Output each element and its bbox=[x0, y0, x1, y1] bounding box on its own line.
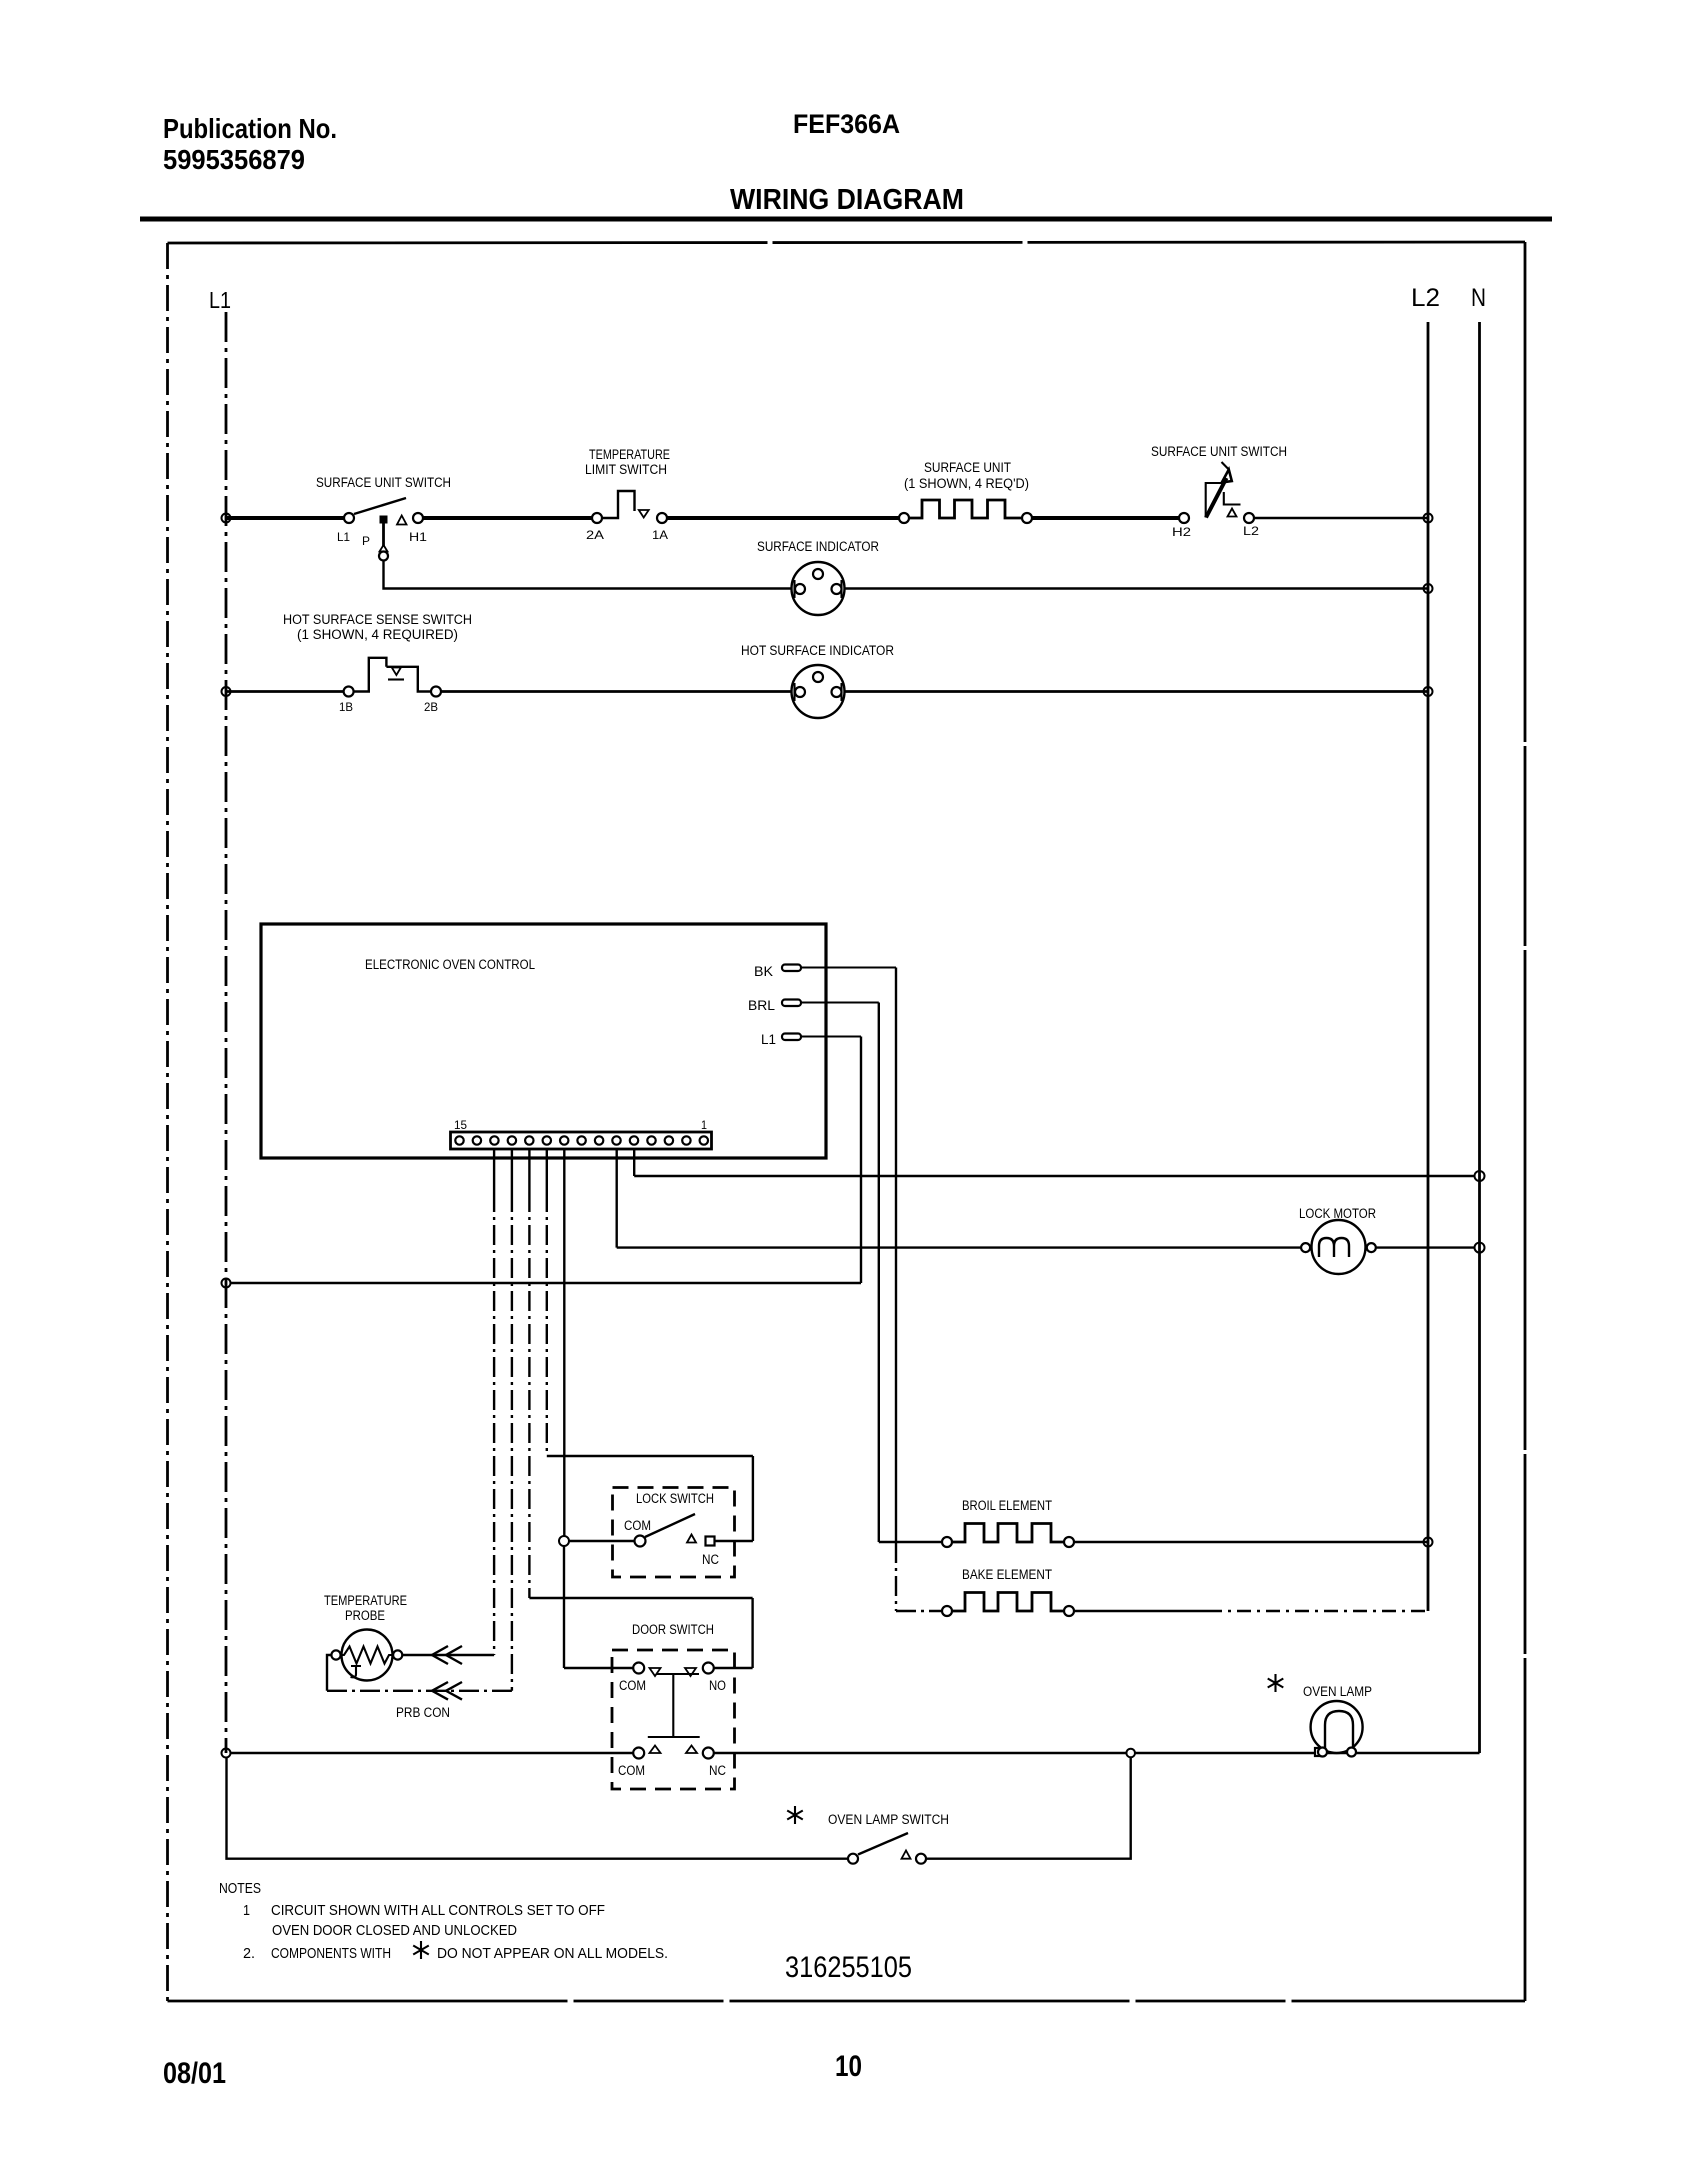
svg-text:(1 SHOWN, 4 REQUIRED): (1 SHOWN, 4 REQUIRED) bbox=[297, 627, 458, 642]
svg-text:(1 SHOWN, 4 REQ'D): (1 SHOWN, 4 REQ'D) bbox=[904, 476, 1029, 491]
svg-text:SURFACE UNIT SWITCH: SURFACE UNIT SWITCH bbox=[1151, 444, 1287, 459]
svg-text:SURFACE INDICATOR: SURFACE INDICATOR bbox=[757, 539, 879, 554]
svg-text:COM: COM bbox=[619, 1678, 646, 1693]
svg-text:P: P bbox=[362, 534, 370, 548]
svg-text:COM: COM bbox=[624, 1518, 651, 1533]
svg-text:NOTES: NOTES bbox=[219, 1880, 261, 1897]
svg-text:08/01: 08/01 bbox=[163, 2057, 226, 2090]
svg-text:NC: NC bbox=[709, 1763, 726, 1778]
svg-text:H1: H1 bbox=[409, 530, 427, 544]
svg-text:BAKE ELEMENT: BAKE ELEMENT bbox=[962, 1567, 1052, 1582]
svg-text:BK: BK bbox=[754, 964, 773, 979]
svg-text:2.: 2. bbox=[243, 1945, 255, 1962]
svg-text:5995356879: 5995356879 bbox=[163, 144, 305, 175]
svg-text:SURFACE UNIT: SURFACE UNIT bbox=[924, 460, 1011, 475]
svg-text:TEMPERATURE: TEMPERATURE bbox=[589, 447, 670, 462]
svg-text:OVEN LAMP: OVEN LAMP bbox=[1303, 1684, 1372, 1699]
svg-text:DOOR SWITCH: DOOR SWITCH bbox=[632, 1622, 714, 1637]
svg-text:2B: 2B bbox=[424, 700, 438, 714]
svg-text:DO NOT APPEAR ON ALL MODELS.: DO NOT APPEAR ON ALL MODELS. bbox=[437, 1945, 668, 1962]
svg-text:WIRING DIAGRAM: WIRING DIAGRAM bbox=[730, 184, 964, 216]
svg-text:10: 10 bbox=[835, 2050, 862, 2083]
svg-text:Publication No.: Publication No. bbox=[163, 113, 337, 144]
svg-text:N: N bbox=[1471, 284, 1486, 312]
svg-text:BRL: BRL bbox=[748, 998, 776, 1013]
svg-text:PROBE: PROBE bbox=[345, 1608, 385, 1623]
svg-text:LIMIT SWITCH: LIMIT SWITCH bbox=[585, 462, 667, 477]
svg-text:FEF366A: FEF366A bbox=[793, 109, 900, 139]
svg-text:LOCK SWITCH: LOCK SWITCH bbox=[636, 1491, 714, 1506]
svg-text:2A: 2A bbox=[586, 528, 604, 542]
svg-text:ELECTRONIC OVEN CONTROL: ELECTRONIC OVEN CONTROL bbox=[365, 957, 535, 972]
svg-text:L1: L1 bbox=[209, 287, 231, 313]
svg-text:SURFACE UNIT SWITCH: SURFACE UNIT SWITCH bbox=[316, 475, 451, 490]
svg-text:L2: L2 bbox=[1411, 284, 1440, 312]
svg-text:L2: L2 bbox=[1243, 524, 1259, 538]
svg-text:NO: NO bbox=[709, 1678, 726, 1693]
svg-text:HOT SURFACE INDICATOR: HOT SURFACE INDICATOR bbox=[741, 643, 894, 658]
svg-text:15: 15 bbox=[454, 1118, 467, 1132]
svg-text:1: 1 bbox=[701, 1118, 707, 1132]
svg-text:OVEN DOOR CLOSED AND UNLOCKED: OVEN DOOR CLOSED AND UNLOCKED bbox=[272, 1922, 517, 1939]
svg-text:HOT SURFACE SENSE SWITCH: HOT SURFACE SENSE SWITCH bbox=[283, 612, 472, 627]
svg-text:NC: NC bbox=[702, 1552, 719, 1567]
svg-text:L1: L1 bbox=[337, 530, 350, 544]
svg-text:LOCK MOTOR: LOCK MOTOR bbox=[1299, 1206, 1376, 1221]
svg-text:OVEN LAMP SWITCH: OVEN LAMP SWITCH bbox=[828, 1812, 949, 1827]
svg-text:BROIL ELEMENT: BROIL ELEMENT bbox=[962, 1498, 1052, 1513]
svg-text:1: 1 bbox=[243, 1902, 250, 1919]
svg-text:316255105: 316255105 bbox=[785, 1951, 912, 1984]
svg-text:COM: COM bbox=[618, 1763, 645, 1778]
svg-text:1A: 1A bbox=[652, 528, 668, 542]
svg-text:CIRCUIT SHOWN WITH ALL CONTROL: CIRCUIT SHOWN WITH ALL CONTROLS SET TO O… bbox=[271, 1902, 605, 1919]
svg-text:H2: H2 bbox=[1172, 525, 1191, 539]
svg-text:TEMPERATURE: TEMPERATURE bbox=[324, 1593, 407, 1608]
svg-text:L1: L1 bbox=[761, 1032, 776, 1047]
svg-text:PRB CON: PRB CON bbox=[396, 1705, 450, 1720]
svg-text:COMPONENTS WITH: COMPONENTS WITH bbox=[271, 1945, 391, 1962]
svg-text:1B: 1B bbox=[339, 700, 353, 714]
